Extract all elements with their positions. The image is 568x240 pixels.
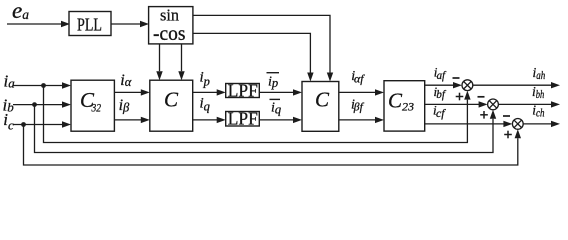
svg-text:bh: bh bbox=[536, 89, 545, 101]
sign plus junction 1 bbox=[456, 93, 464, 101]
wire i_bf C23 to summing junction 2 bbox=[425, 101, 488, 107]
wire i_b feedback to summing junction 2 bbox=[35, 105, 497, 153]
wire i_beta_f second C to C23 bbox=[339, 117, 384, 123]
junction dot i_b bbox=[32, 102, 37, 107]
wire i_bh output bbox=[498, 101, 560, 107]
node ibar_p bbox=[267, 73, 280, 90]
wire i_a input bbox=[13, 82, 71, 88]
sign plus junction 3 bbox=[504, 131, 512, 139]
svg-text:PLL: PLL bbox=[77, 15, 102, 35]
sign minus junction 2 bbox=[478, 96, 485, 98]
svg-text:C: C bbox=[164, 88, 179, 112]
block C23 bbox=[384, 81, 425, 131]
node i_cf bbox=[433, 103, 446, 121]
svg-text:-cos: -cos bbox=[153, 21, 186, 45]
block LPF2 bbox=[226, 112, 260, 127]
sign minus junction 3 bbox=[503, 115, 510, 117]
svg-text:ch: ch bbox=[536, 107, 545, 119]
junction dot i_c bbox=[21, 122, 26, 127]
block C32 label bbox=[80, 88, 101, 114]
wire ibar_q LPF2 to second C bbox=[259, 117, 302, 123]
svg-text:iα: iα bbox=[120, 72, 131, 89]
wire PLL to sin-cos bbox=[111, 21, 149, 27]
block sin-cos bbox=[149, 7, 193, 44]
node i_bh bbox=[532, 84, 544, 101]
wire e_a input bbox=[7, 21, 70, 27]
block LPF1 bbox=[226, 84, 260, 98]
wire i_ah output bbox=[473, 82, 560, 88]
node i_ah bbox=[533, 65, 546, 82]
wire i_alpha_f second C to C23 bbox=[339, 89, 384, 95]
wire sin down to first C block bbox=[156, 44, 162, 80]
wire i_c input bbox=[13, 121, 71, 127]
svg-text:iq: iq bbox=[271, 100, 281, 116]
svg-text:C: C bbox=[315, 88, 330, 112]
node i_beta_f bbox=[351, 97, 365, 113]
junction dot i_a bbox=[41, 83, 46, 88]
node ibar_q bbox=[270, 99, 282, 116]
wire i_b input bbox=[13, 101, 71, 107]
svg-text:ip: ip bbox=[268, 74, 278, 90]
block sin-cos label bbox=[153, 6, 186, 45]
wire i_alpha C32 to C bbox=[114, 89, 149, 95]
wire i_p C to LPF1 bbox=[193, 89, 226, 95]
svg-text:ah: ah bbox=[536, 70, 545, 82]
block C first bbox=[150, 80, 193, 131]
wire i_q C to LPF2 bbox=[193, 117, 226, 123]
summing junction 3 bbox=[512, 119, 523, 130]
svg-text:LPF: LPF bbox=[228, 80, 258, 100]
wire i_ch output bbox=[523, 121, 560, 127]
block PLL bbox=[69, 12, 111, 36]
node i_ch bbox=[532, 103, 544, 120]
summing junction 1 bbox=[462, 80, 473, 91]
wire i_beta C32 to C bbox=[114, 117, 149, 123]
svg-text:LPF: LPF bbox=[228, 109, 258, 129]
svg-text:iβ: iβ bbox=[119, 97, 130, 115]
block C32 bbox=[71, 80, 114, 131]
sign minus junction 1 bbox=[453, 77, 460, 79]
svg-text:32: 32 bbox=[91, 100, 101, 114]
node i_alpha_f bbox=[351, 69, 365, 86]
wire sin output to second C block bbox=[193, 15, 333, 81]
wire i_cf C23 to summing junction 3 bbox=[425, 121, 513, 127]
node i_af bbox=[434, 65, 447, 83]
wire cos output to second C block bbox=[193, 33, 314, 81]
block C second bbox=[302, 82, 339, 132]
wire i_c feedback to summing junction 3 bbox=[24, 125, 522, 166]
summing junction 2 bbox=[488, 99, 499, 110]
sign plus junction 2 bbox=[480, 111, 488, 119]
wire ibar_p LPF1 to second C bbox=[259, 89, 302, 95]
wire cos down to first C block bbox=[178, 44, 184, 80]
node i_bf bbox=[434, 84, 447, 101]
wire i_a feedback to summing junction 1 bbox=[44, 86, 471, 143]
wire i_af C23 to summing junction 1 bbox=[425, 82, 462, 88]
